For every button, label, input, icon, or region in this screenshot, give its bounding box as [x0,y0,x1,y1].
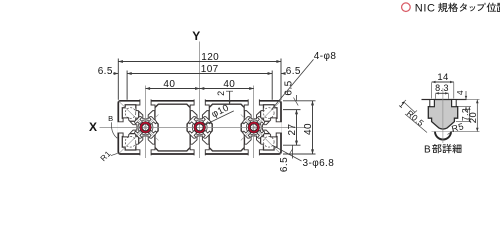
svg-text:2: 2 [216,90,226,95]
profile outer body 120x40 [118,101,281,154]
svg-text:X: X [89,120,97,134]
dim 6.5 right top [296,95,298,101]
corner cavity top-right with dashed tap hole [261,105,277,121]
svg-text:20: 20 [468,112,479,123]
svg-text:4-φ8: 4-φ8 [314,51,337,62]
T-slot void pattern column 3 (x=100) [246,120,261,135]
diagonal centerlines right module [241,101,281,140]
corner cavity bottom-left with dashed tap hole [122,134,138,150]
svg-text:4: 4 [455,90,465,95]
B detail R5 label [448,131,454,135]
B detail dim 4 [465,91,467,99]
dim 27 [296,110,298,146]
svg-text:40: 40 [303,123,314,135]
svg-text:6.5: 6.5 [279,157,290,172]
NIC tap position circle 1 (red) [140,122,151,133]
svg-text:6.5: 6.5 [283,80,294,95]
NIC tap position circle 3 (red) [248,122,259,133]
svg-text:6.5: 6.5 [286,66,301,77]
dim 6.5 top-right [281,73,285,75]
svg-text:B: B [424,144,431,155]
svg-text:27: 27 [287,124,298,136]
Y axis centerline [199,42,201,159]
corner cavity bottom-right with dashed tap hole [261,134,277,150]
dim 40 left [146,88,200,90]
svg-text:107: 107 [201,64,219,75]
dim 6.5 top-left [113,73,118,75]
dim 6.5 right bottom [292,145,294,158]
T-slot void pattern column 2 (x=60) [192,120,207,135]
extension lines for 120 dim [117,59,119,100]
svg-text:6.5: 6.5 [98,66,113,77]
B detail dim 20 [458,99,480,101]
B detail dim 14 [431,83,433,99]
dim 40 right [200,88,254,90]
B detail dim 8.3 [435,94,437,99]
T-slot void pattern column 1 (x=20) [138,120,153,135]
dim 120 [118,61,281,63]
B detail lip notches [430,100,435,107]
right extension lines [283,100,316,102]
svg-text:Y: Y [192,29,200,43]
B detail R0.5 label [405,114,427,133]
svg-text:40: 40 [223,79,235,90]
dim 2 wall thickness [229,91,231,104]
svg-text:8.3: 8.3 [435,83,449,93]
svg-text:40: 40 [163,79,175,90]
large hollow cavity left-middle [155,104,190,151]
column 1 centerline [145,86,147,159]
dim 107 [127,73,272,75]
X axis centerline [100,127,307,129]
legend red circle [402,3,411,12]
corner cavity top-left with dashed tap hole [122,105,138,121]
svg-text:B: B [108,114,113,123]
B detail R5 tap hole arc [435,132,451,140]
extension lines for 107 dim [126,71,128,100]
leader phi10 [203,111,234,126]
B detail centerline [442,88,444,143]
B detail dim 7.2 [458,106,471,108]
svg-text:3-φ6.8: 3-φ6.8 [303,158,335,169]
dim 40 right side [312,101,314,154]
large hollow cavity right-middle [209,104,244,151]
svg-text:14: 14 [437,72,448,83]
B detail dim 1 [404,102,416,113]
column 3 centerline [253,86,255,159]
svg-text:NIC: NIC [415,2,436,14]
NIC tap position circle 2 (red) [194,122,205,133]
leader 4-phi8 [272,59,314,109]
B detail surface lines [422,99,435,101]
B detail grey slot body [428,100,457,130]
leader 3-phi6.8 [273,145,302,161]
svg-text:120: 120 [201,52,219,63]
diagonal centerlines left module [119,101,159,140]
